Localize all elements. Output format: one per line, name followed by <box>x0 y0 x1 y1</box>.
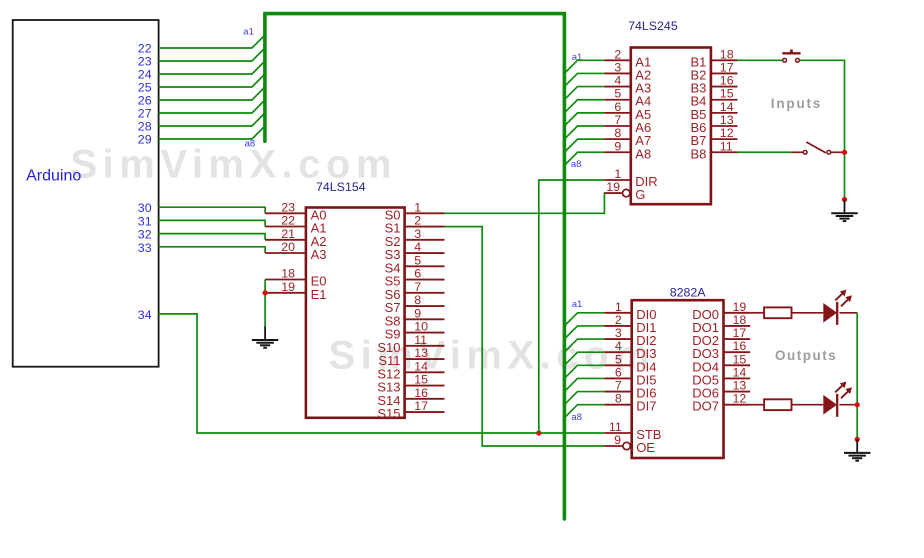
svg-text:15: 15 <box>720 87 734 101</box>
U3 pin 2 DI1 <box>604 313 656 335</box>
U1 pin 8 S7 <box>385 293 445 315</box>
U1 pin 4 S3 <box>385 240 445 262</box>
wire pin 28 to bus a7 <box>159 113 265 126</box>
svg-text:Inputs: Inputs <box>771 96 822 111</box>
svg-text:26: 26 <box>138 94 152 108</box>
U1 pin 23 A0 <box>265 200 326 222</box>
svg-text:DO7: DO7 <box>692 399 719 414</box>
junction dot at E1 <box>263 290 268 295</box>
wire pin 23 to bus a2 <box>159 48 265 61</box>
Arduino pin 28 number <box>138 120 152 134</box>
U3 pin 19 DO0 <box>692 300 750 322</box>
U1 pin 6 S5 <box>385 267 445 289</box>
junction dot above input ground <box>842 197 847 202</box>
wire pin 34 to STB/DIR <box>159 314 605 433</box>
U2 pin 7 A6 <box>604 113 651 135</box>
IC U3 8282A body <box>632 300 724 458</box>
svg-text:4: 4 <box>414 240 421 254</box>
U3 pin 8 DI7 <box>604 392 656 414</box>
svg-text:1: 1 <box>615 300 622 314</box>
Arduino pin 22 number <box>138 42 152 56</box>
U3 pin 16 DO3 <box>692 339 750 361</box>
U1 pin 17 S15 <box>377 399 444 421</box>
svg-text:a8: a8 <box>571 412 582 423</box>
svg-text:2: 2 <box>615 313 622 327</box>
U2 pin 18 B1 <box>690 47 737 69</box>
wire bus a1 to U3 DI0 <box>564 313 604 326</box>
LED LED1 <box>823 290 852 325</box>
svg-text:17: 17 <box>414 399 428 413</box>
svg-text:4: 4 <box>615 339 622 353</box>
svg-text:12: 12 <box>733 392 747 406</box>
svg-text:1: 1 <box>414 200 421 214</box>
wire bus a8 to U3 DI7 <box>564 405 604 418</box>
wire junction to DIR <box>539 180 605 433</box>
U1 pin 2 S1 <box>385 214 445 236</box>
U3 pin 4 DI3 <box>604 339 656 361</box>
svg-text:13: 13 <box>720 113 734 127</box>
svg-text:27: 27 <box>138 107 152 121</box>
svg-text:18: 18 <box>720 47 734 61</box>
svg-text:25: 25 <box>138 81 152 95</box>
U2 pin 14 B5 <box>690 100 737 122</box>
ground GND (outputs) <box>844 439 871 460</box>
svg-text:19: 19 <box>606 180 620 194</box>
wire LED2 to resistor R2 <box>750 404 764 406</box>
U2 pin 8 A7 <box>604 126 651 148</box>
IC U1 title 74LS154 <box>316 180 366 194</box>
svg-text:11: 11 <box>414 333 427 347</box>
svg-text:11: 11 <box>720 139 733 153</box>
svg-text:S15: S15 <box>377 406 400 421</box>
svg-text:8: 8 <box>614 126 621 140</box>
svg-text:Arduino: Arduino <box>26 167 81 184</box>
wire bus a2 to U3 DI1 <box>564 326 604 339</box>
Arduino label <box>26 167 81 184</box>
svg-text:a1: a1 <box>243 27 254 38</box>
svg-text:6: 6 <box>614 100 621 114</box>
U3 pin 3 DI2 <box>604 326 656 348</box>
wire S0 to 74LS245 G <box>445 193 622 213</box>
U2 pin 1 DIR <box>604 167 657 189</box>
svg-text:DI7: DI7 <box>636 399 656 414</box>
svg-text:9: 9 <box>614 139 621 153</box>
pushbutton S1 (momentary) <box>782 50 800 63</box>
svg-text:32: 32 <box>138 228 152 242</box>
ground GND (U1 enables) <box>252 326 279 348</box>
U2 pin 2 A1 <box>604 47 651 69</box>
bus net a[1..8] (thick green bus) <box>265 14 565 519</box>
wire pin 27 to bus a6 <box>159 100 265 113</box>
junction dot switch to ground net <box>842 150 847 155</box>
svg-text:6: 6 <box>615 365 622 379</box>
wire bus a3 to U3 DI2 <box>564 339 604 352</box>
wire pin 25 to bus a4 <box>159 74 265 87</box>
wire bus a8 to U2 A8 <box>564 152 604 165</box>
svg-text:14: 14 <box>414 359 428 373</box>
LED LED2 <box>823 382 852 417</box>
wire pin 26 to bus a5 <box>159 87 265 100</box>
svg-text:A8: A8 <box>635 146 651 161</box>
Arduino pin 26 number <box>138 94 152 108</box>
Arduino pin 29 number <box>138 133 152 147</box>
svg-text:a1: a1 <box>572 52 583 63</box>
Arduino pin 30 number <box>138 201 152 215</box>
svg-text:22: 22 <box>281 214 295 228</box>
U1 pin 1 S0 <box>385 200 445 222</box>
svg-text:11: 11 <box>609 420 622 434</box>
wire bus a5 to U3 DI4 <box>564 365 604 378</box>
U3 pin 13 DO6 <box>692 379 750 401</box>
svg-text:17: 17 <box>720 60 734 74</box>
svg-text:14: 14 <box>720 100 734 114</box>
svg-text:8: 8 <box>414 293 421 307</box>
svg-text:3: 3 <box>615 326 622 340</box>
wire pushbutton to ground net <box>800 60 845 199</box>
svg-text:29: 29 <box>138 133 152 147</box>
Arduino pin 27 number <box>138 107 152 121</box>
wire bus a5 to U2 A5 <box>564 113 604 126</box>
U3 pin 14 DO5 <box>692 365 750 387</box>
U1 pin 15 S13 <box>377 373 444 395</box>
wire pin 22 to bus a1 <box>159 35 265 48</box>
svg-text:23: 23 <box>138 55 152 69</box>
net label a8 (U3 side) <box>571 412 582 423</box>
wire resistor R1 to LED LED1 <box>792 312 824 314</box>
U3 pin 15 DO4 <box>692 352 750 374</box>
net label a1 (U2 side) <box>572 52 583 63</box>
svg-text:22: 22 <box>138 42 152 56</box>
svg-text:A3: A3 <box>311 247 327 262</box>
Arduino pin 34 number <box>138 308 152 322</box>
svg-text:23: 23 <box>281 200 295 214</box>
Arduino pin 25 number <box>138 81 152 95</box>
Arduino pin 31 number <box>138 214 152 228</box>
svg-text:16: 16 <box>720 74 734 88</box>
svg-text:a1: a1 <box>572 299 583 310</box>
svg-text:a8: a8 <box>245 139 256 150</box>
svg-text:8282A: 8282A <box>670 286 707 300</box>
svg-text:21: 21 <box>281 227 295 241</box>
svg-text:2: 2 <box>414 214 421 228</box>
U3 pin 5 DI4 <box>604 352 656 374</box>
U2 pin 5 A4 <box>604 87 651 109</box>
U1 pin 21 A2 <box>265 227 326 249</box>
U1 pin 9 S8 <box>385 306 445 328</box>
wire bus a1 to U2 A1 <box>564 60 604 73</box>
U2 pin 3 A2 <box>604 60 651 82</box>
wire pin 32 to 74LS154 A2 <box>159 234 266 240</box>
U3 pin 17 DO2 <box>692 326 750 348</box>
svg-text:7: 7 <box>615 379 622 393</box>
svg-text:2: 2 <box>614 47 621 61</box>
ground GND (inputs) <box>831 200 858 222</box>
junction dot LED2 cathode <box>855 402 860 407</box>
svg-text:B8: B8 <box>690 146 706 161</box>
U1 pin 20 A3 <box>265 240 326 262</box>
svg-text:1: 1 <box>614 167 621 181</box>
svg-text:Outputs: Outputs <box>775 348 837 363</box>
wire bus a7 to U2 A7 <box>564 139 604 152</box>
U1 pin 18 E0 <box>265 267 326 289</box>
U2 pin 12 B7 <box>690 126 737 148</box>
Arduino module box <box>13 20 159 367</box>
U3 pin 12 DO7 <box>692 392 750 414</box>
decorative watermark 2 (background) <box>329 334 656 378</box>
resistor R1 <box>764 307 791 318</box>
svg-text:12: 12 <box>720 126 734 140</box>
svg-text:16: 16 <box>733 339 747 353</box>
svg-text:a8: a8 <box>571 159 582 170</box>
svg-text:3: 3 <box>414 227 421 241</box>
U1 pin 5 S4 <box>385 253 445 275</box>
svg-text:5: 5 <box>615 352 622 366</box>
svg-text:14: 14 <box>733 365 747 379</box>
svg-text:30: 30 <box>138 201 152 215</box>
wire output ground net <box>856 313 858 440</box>
wire B8 to toggle switch <box>738 151 791 153</box>
svg-text:3: 3 <box>614 60 621 74</box>
svg-text:15: 15 <box>733 352 747 366</box>
net label a1 (U3 side) <box>572 299 583 310</box>
U1 pin 11 S10 <box>377 333 444 355</box>
svg-text:33: 33 <box>138 241 152 255</box>
U2 pin 13 B6 <box>690 113 737 135</box>
wire LED1 to resistor R1 <box>750 312 764 314</box>
svg-text:10: 10 <box>414 320 428 334</box>
svg-text:15: 15 <box>414 373 428 387</box>
IC U1 74LS154 body <box>306 208 405 418</box>
U3 pin 7 DI6 <box>604 379 656 401</box>
svg-text:18: 18 <box>733 313 747 327</box>
Arduino pin 32 number <box>138 228 152 242</box>
svg-text:24: 24 <box>138 68 152 82</box>
resistor R2 <box>764 399 791 410</box>
U2 pin 11 B8 <box>690 139 737 161</box>
svg-text:7: 7 <box>414 280 421 294</box>
svg-text:19: 19 <box>733 300 747 314</box>
wire LED LED1 to ground net <box>839 312 857 314</box>
svg-text:7: 7 <box>614 113 621 127</box>
svg-text:18: 18 <box>281 267 295 281</box>
svg-text:13: 13 <box>733 379 747 393</box>
svg-text:5: 5 <box>414 253 421 267</box>
svg-text:17: 17 <box>733 326 747 340</box>
junction dot above output ground <box>855 437 860 442</box>
svg-text:31: 31 <box>138 214 152 228</box>
svg-text:74LS245: 74LS245 <box>628 19 678 33</box>
wire pin 31 to 74LS154 A1 <box>159 220 266 226</box>
wire bus a4 to U3 DI3 <box>564 352 604 365</box>
wire bus a7 to U3 DI6 <box>564 392 604 405</box>
U3 pin 6 DI5 <box>604 365 656 387</box>
U1 pin 13 S11 <box>378 346 444 368</box>
wire S1 to 8282A OE <box>445 227 605 446</box>
wire bus a4 to U2 A4 <box>564 100 604 113</box>
U2 pin 19 G (inverted) <box>604 180 645 202</box>
wire resistor R2 to LED LED2 <box>792 404 824 406</box>
svg-text:19: 19 <box>281 280 295 294</box>
net label a8 (U2 side) <box>571 159 582 170</box>
svg-text:E1: E1 <box>311 287 327 302</box>
net label a8 (Arduino side) <box>245 139 256 150</box>
U3 pin 18 DO1 <box>692 313 750 335</box>
svg-text:6: 6 <box>414 267 421 281</box>
U3 pin 11 STB <box>604 420 661 442</box>
U2 pin 9 A8 <box>604 139 651 161</box>
svg-text:5: 5 <box>614 87 621 101</box>
svg-text:20: 20 <box>281 240 295 254</box>
Arduino pin 24 number <box>138 68 152 82</box>
wire pin 29 to bus a8 <box>159 126 265 139</box>
decorative watermark 1 (background) <box>71 143 398 187</box>
IC U3 title 8282A <box>670 286 707 300</box>
U1 pin 10 S9 <box>385 320 445 342</box>
U1 pin 3 S2 <box>385 227 445 249</box>
wire B1 to pushbutton <box>738 59 783 61</box>
svg-text:16: 16 <box>414 386 428 400</box>
Arduino pin 33 number <box>138 241 152 255</box>
U1 pin 19 E1 <box>265 280 326 302</box>
svg-text:28: 28 <box>138 120 152 134</box>
junction dot STB/DIR node <box>536 430 541 435</box>
U2 pin 17 B2 <box>690 60 737 82</box>
Arduino pin 23 number <box>138 55 152 69</box>
IC U2 title 74LS245 <box>628 19 678 33</box>
svg-text:13: 13 <box>414 346 428 360</box>
svg-text:OE: OE <box>636 440 655 455</box>
svg-text:74LS154: 74LS154 <box>316 180 366 194</box>
U2 pin 15 B4 <box>690 87 737 109</box>
wire bus a2 to U2 A2 <box>564 73 604 86</box>
svg-text:4: 4 <box>614 74 621 88</box>
U3 pin 1 DI0 <box>604 300 656 322</box>
U1 pin 14 S12 <box>377 359 444 381</box>
U3 pin 9 OE (inverted) <box>604 433 655 455</box>
svg-text:9: 9 <box>614 433 621 447</box>
U2 pin 4 A3 <box>604 74 651 96</box>
net label a1 (Arduino side) <box>243 27 254 38</box>
wire bus a6 to U2 A6 <box>564 126 604 139</box>
svg-text:G: G <box>635 187 645 202</box>
wire pin 24 to bus a3 <box>159 61 265 74</box>
wire bus a6 to U3 DI5 <box>564 378 604 391</box>
svg-text:9: 9 <box>414 306 421 320</box>
svg-text:34: 34 <box>138 308 152 322</box>
U1 pin 22 A1 <box>265 214 326 236</box>
Inputs label <box>771 96 822 111</box>
wire LED LED2 to ground net <box>839 404 857 406</box>
U2 pin 16 B3 <box>690 74 737 96</box>
wire pin 33 to 74LS154 A3 <box>159 247 266 253</box>
toggle switch S2 <box>791 142 844 154</box>
U2 pin 6 A5 <box>604 100 651 122</box>
U1 pin 16 S14 <box>377 386 444 408</box>
wire pin 30 to 74LS154 A0 <box>159 207 266 213</box>
Outputs label <box>775 348 837 363</box>
U1 pin 7 S6 <box>385 280 445 302</box>
IC U2 74LS245 body <box>631 48 711 205</box>
wire E0/E1 to ground <box>264 280 266 327</box>
wire bus a3 to U2 A3 <box>564 87 604 100</box>
svg-text:8: 8 <box>615 392 622 406</box>
